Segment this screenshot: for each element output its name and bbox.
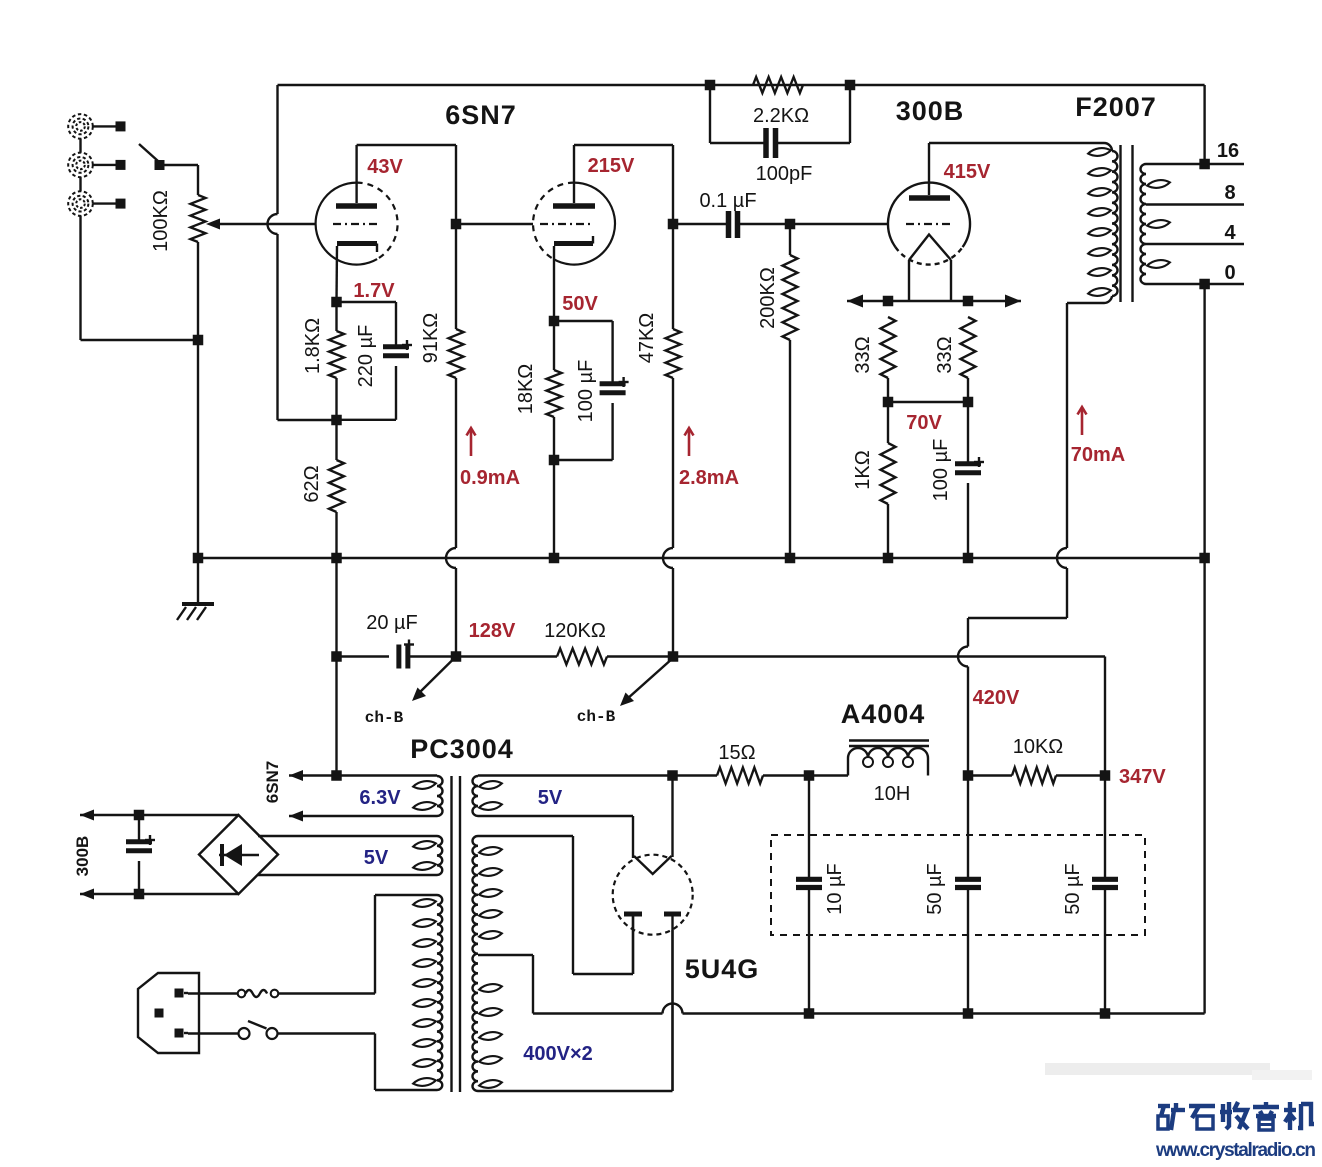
label 400Vx2 bbox=[523, 1043, 593, 1065]
svg-text:www.crystalradio.cn: www.crystalradio.cn bbox=[1155, 1140, 1316, 1161]
resistor 15&#937; surge bbox=[673, 742, 810, 784]
svg-text:47KΩ: 47KΩ bbox=[636, 313, 658, 364]
svg-text:215V: 215V bbox=[588, 155, 635, 177]
label PC3004 bbox=[410, 734, 514, 764]
svg-text:A4004: A4004 bbox=[841, 699, 926, 729]
junction top rail right of 2.2K bbox=[845, 80, 856, 91]
wire grid V1b bbox=[456, 223, 533, 225]
ch-B tap right bbox=[577, 658, 673, 726]
wire 300B plate to OPT bbox=[929, 143, 1112, 151]
wire plate V1a to stage2 bbox=[357, 145, 456, 224]
svg-text:400V×2: 400V×2 bbox=[523, 1043, 593, 1065]
label 6SN7 bbox=[445, 100, 517, 130]
wire HV center tap bbox=[478, 955, 533, 1014]
wire plate V1b to coupling bbox=[574, 145, 673, 224]
wire feedback left drop bbox=[268, 85, 337, 420]
svg-text:50 µF: 50 µF bbox=[924, 863, 946, 915]
svg-text:100 µF: 100 µF bbox=[930, 439, 952, 502]
filament 5U4G bbox=[634, 770, 678, 874]
svg-text:5V: 5V bbox=[538, 787, 563, 809]
label 300B heater bbox=[73, 836, 92, 877]
svg-text:18KΩ: 18KΩ bbox=[515, 364, 537, 415]
inductor 5V winding right bbox=[473, 776, 503, 816]
tap 4 label bbox=[1146, 222, 1244, 244]
capacitor 100&#181;F cathode bypass bbox=[554, 321, 629, 460]
svg-text:420V: 420V bbox=[973, 687, 1020, 709]
junction ground rail bbox=[1199, 553, 1210, 564]
svg-text:20 µF: 20 µF bbox=[366, 612, 418, 634]
triode V1b 6SN7 envelope bbox=[533, 183, 615, 265]
wire 100pF branch bbox=[710, 85, 850, 143]
choke A4004 10H bbox=[809, 699, 929, 805]
wire primary top bbox=[375, 895, 437, 994]
tap 8 label bbox=[1146, 182, 1244, 205]
watermark url bbox=[1155, 1140, 1316, 1161]
junction cathode network bottom bbox=[331, 415, 342, 426]
svg-text:100KΩ: 100KΩ bbox=[150, 190, 172, 252]
svg-text:16: 16 bbox=[1217, 140, 1239, 162]
svg-text:300B: 300B bbox=[896, 96, 965, 126]
watermark crystalradio logo bbox=[1158, 1102, 1314, 1130]
dashed group box bbox=[771, 835, 1145, 935]
wire hum balance row bbox=[883, 378, 974, 407]
resistor 62&#937; bbox=[301, 420, 344, 558]
wire OPT primary bottom bbox=[958, 296, 1112, 776]
svg-text:8: 8 bbox=[1224, 182, 1235, 204]
svg-text:300B: 300B bbox=[73, 836, 92, 877]
svg-text:128V: 128V bbox=[469, 620, 516, 642]
svg-text:91KΩ: 91KΩ bbox=[420, 313, 442, 364]
wire PSU ground bus bbox=[533, 1004, 1205, 1019]
capacitor 10&#181;F filter bbox=[796, 776, 846, 1014]
svg-text:70V: 70V bbox=[906, 412, 942, 434]
svg-text:5V: 5V bbox=[364, 847, 389, 869]
svg-text:10H: 10H bbox=[874, 783, 911, 805]
filament 300B bbox=[909, 235, 951, 302]
voltage label 70V bbox=[906, 412, 942, 434]
pot wiper arrow bbox=[206, 219, 316, 230]
core OPT bbox=[1121, 145, 1133, 302]
resistor 33&#937; left bbox=[852, 317, 896, 378]
svg-text:50V: 50V bbox=[562, 293, 598, 315]
resistor 10K&#937; dropper bbox=[968, 736, 1105, 784]
resistor 1K&#937; cathode bias bbox=[852, 402, 896, 558]
svg-text:70mA: 70mA bbox=[1071, 444, 1125, 466]
svg-text:220 µF: 220 µF bbox=[355, 325, 377, 388]
wire 5V left top bbox=[258, 835, 437, 837]
junction cathode network bottom V1b bbox=[549, 455, 560, 558]
voltage label 215V bbox=[588, 155, 635, 177]
RCA input jack J2 bbox=[68, 153, 125, 178]
potentiometer 100K&#937; volume bbox=[150, 165, 206, 558]
svg-text:100 µF: 100 µF bbox=[575, 360, 597, 423]
junction grid row stage2 bbox=[451, 219, 462, 230]
wire 347V feed bbox=[673, 657, 1105, 776]
grid V1a bbox=[333, 223, 381, 225]
plate V1a bbox=[336, 145, 377, 206]
junction 420V node bbox=[963, 770, 974, 781]
svg-text:4: 4 bbox=[1224, 222, 1236, 244]
svg-text:347V: 347V bbox=[1119, 766, 1166, 788]
svg-text:415V: 415V bbox=[944, 161, 991, 183]
current label 0.9mA bbox=[460, 428, 520, 489]
junction 347V node bbox=[1100, 770, 1111, 781]
svg-text:2.2KΩ: 2.2KΩ bbox=[753, 105, 809, 127]
capacitor 220&#181;F cathode bypass bbox=[337, 302, 413, 420]
wire ground to heater bbox=[335, 657, 337, 776]
svg-text:1.8KΩ: 1.8KΩ bbox=[302, 318, 324, 374]
wire bridge DC minus bbox=[80, 889, 239, 900]
inductor primary winding bbox=[413, 895, 443, 1090]
svg-text:5U4G: 5U4G bbox=[685, 954, 760, 984]
selector switch SW1 bbox=[139, 144, 198, 170]
svg-text:62Ω: 62Ω bbox=[301, 465, 323, 502]
switch mains SW2 bbox=[188, 1021, 375, 1039]
tap 0 label bbox=[1146, 262, 1244, 289]
svg-text:100pF: 100pF bbox=[756, 163, 813, 185]
triode V1a 6SN7 envelope bbox=[316, 183, 398, 265]
svg-text:33Ω: 33Ω bbox=[934, 336, 956, 373]
inductor OPT secondary bbox=[1141, 164, 1171, 284]
junction top rail left of 2.2K bbox=[705, 80, 716, 91]
wire HV bottom to plate bbox=[478, 930, 673, 1091]
grid 300B bbox=[906, 223, 950, 225]
label 5V left bbox=[364, 847, 389, 869]
capacitor 100pF bbox=[756, 128, 813, 185]
node cathode V1b 50V bbox=[549, 316, 560, 327]
label F2007 bbox=[1075, 92, 1157, 122]
svg-text:ch-B: ch-B bbox=[365, 709, 404, 727]
grid V1b bbox=[540, 223, 594, 225]
label 300B bbox=[896, 96, 965, 126]
node cathode V1a 1.7V bbox=[331, 297, 342, 308]
AC plug bbox=[138, 973, 199, 1053]
svg-text:200KΩ: 200KΩ bbox=[757, 267, 779, 329]
voltage label 420V bbox=[973, 687, 1020, 709]
resistor 47K&#937; plate load V1b bbox=[636, 224, 681, 657]
svg-text:F2007: F2007 bbox=[1075, 92, 1157, 122]
label 5V right bbox=[538, 787, 563, 809]
wire 300B filament row bbox=[847, 295, 1021, 308]
junction 10uF top bbox=[804, 770, 815, 781]
junction filament right bbox=[963, 296, 974, 307]
capacitor filament filter bbox=[126, 815, 155, 894]
capacitor 100&#181;F 300B bypass bbox=[930, 402, 984, 558]
wire 5V right top bbox=[478, 774, 673, 776]
svg-text:15Ω: 15Ω bbox=[718, 742, 755, 764]
svg-text:0: 0 bbox=[1224, 262, 1235, 284]
resistor 33&#937; right bbox=[934, 317, 976, 378]
wire ground to 20uF bbox=[331, 558, 342, 662]
resistor 120K&#937; dropper bbox=[456, 620, 673, 665]
voltage label 50V bbox=[562, 293, 598, 315]
wire 0 tap down bbox=[1203, 284, 1205, 558]
wire 6.3V top bbox=[289, 770, 437, 781]
plate 5U4G left bbox=[624, 914, 642, 974]
inductor 6.3V winding bbox=[413, 776, 443, 816]
cathode V1a bbox=[337, 244, 378, 303]
svg-text:6SN7: 6SN7 bbox=[263, 761, 282, 804]
svg-text:1.7V: 1.7V bbox=[353, 280, 395, 302]
junction ground rail bbox=[193, 553, 204, 564]
svg-text:1KΩ: 1KΩ bbox=[852, 450, 874, 489]
wire primary bottom bbox=[375, 1034, 437, 1091]
capacitor 20&#181;F decoupling bbox=[337, 612, 457, 669]
label 6.3V bbox=[359, 787, 401, 809]
junction 300B grid node bbox=[785, 219, 796, 230]
plate 300B bbox=[909, 143, 950, 198]
current label 70mA bbox=[1071, 407, 1125, 466]
fuse F1 bbox=[188, 990, 375, 998]
core PC3004 bbox=[452, 776, 461, 1092]
rectifier 5U4G envelope bbox=[613, 855, 693, 935]
svg-text:6.3V: 6.3V bbox=[359, 787, 401, 809]
capacitor 0.1&#181;F coupling bbox=[673, 190, 790, 238]
bridge rectifier D1 bbox=[199, 815, 278, 894]
ch-B tap left bbox=[365, 657, 456, 728]
wire 5V right bottom bbox=[478, 816, 633, 858]
wire 0 tap ground drop bbox=[1203, 558, 1205, 1014]
svg-text:33Ω: 33Ω bbox=[852, 336, 874, 373]
resistor 91K&#937; plate load V1a bbox=[420, 224, 464, 657]
junction ground rail bbox=[549, 553, 560, 564]
junction ground rail bbox=[883, 553, 894, 564]
svg-text:50 µF: 50 µF bbox=[1062, 863, 1084, 915]
svg-text:10KΩ: 10KΩ bbox=[1013, 736, 1064, 758]
cathode V1b bbox=[554, 236, 593, 321]
inductor 5V winding left bbox=[413, 836, 443, 875]
label 5U4G bbox=[685, 954, 760, 984]
inductor HV winding bbox=[472, 836, 502, 1091]
triode 300B envelope bbox=[888, 183, 970, 265]
resistor 200K&#937; grid leak bbox=[757, 224, 798, 558]
junction ground rail bbox=[963, 553, 974, 564]
wire HV top to plate bbox=[478, 836, 633, 974]
wire jack ground bus bbox=[81, 139, 199, 340]
resistor 18K&#937; cathode bbox=[515, 321, 562, 460]
capacitor 50&#181;F filter A bbox=[924, 776, 981, 1014]
voltage label 43V bbox=[367, 156, 403, 178]
svg-text:43V: 43V bbox=[367, 156, 403, 178]
RCA input jack J3 bbox=[68, 191, 125, 216]
junction 120K right node bbox=[668, 651, 679, 662]
watermark streak bbox=[1045, 1063, 1312, 1080]
svg-text:0.9mA: 0.9mA bbox=[460, 467, 520, 489]
tap 16 label bbox=[1146, 140, 1244, 169]
junction ground rail bbox=[785, 553, 796, 564]
wire 6.3V bottom bbox=[289, 811, 437, 822]
ground symbol bbox=[177, 558, 214, 620]
voltage label 1.7V bbox=[353, 280, 395, 302]
voltage label 128V bbox=[469, 620, 516, 642]
label 6SN7 heater bbox=[263, 761, 282, 804]
svg-text:120KΩ: 120KΩ bbox=[544, 620, 606, 642]
junction 128V node bbox=[451, 651, 462, 662]
wire 16 tap to feedback bbox=[1203, 85, 1205, 164]
RCA input jack J1 bbox=[68, 114, 125, 139]
resistor 2.2K&#937; feedback bbox=[753, 77, 809, 127]
svg-text:PC3004: PC3004 bbox=[410, 734, 514, 764]
junction ground rail bbox=[331, 553, 342, 564]
capacitor 50&#181;F filter B bbox=[1062, 776, 1118, 1014]
junction coupling node bbox=[668, 219, 679, 230]
svg-text:2.8mA: 2.8mA bbox=[679, 467, 739, 489]
wire main ground rail bbox=[198, 557, 1205, 559]
svg-text:0.1 µF: 0.1 µF bbox=[699, 190, 756, 212]
wire to 300B grid bbox=[790, 223, 888, 225]
plate V1b bbox=[553, 145, 595, 206]
inductor OPT primary bbox=[1088, 147, 1118, 298]
current label 2.8mA bbox=[679, 428, 739, 489]
junction filament left bbox=[883, 296, 894, 307]
svg-text:ch-B: ch-B bbox=[577, 708, 616, 726]
voltage label 415V bbox=[944, 161, 991, 183]
wire 5V left bottom bbox=[258, 874, 437, 876]
wire feedback top rail bbox=[278, 84, 1205, 86]
resistor 1.8K&#937; cathode bbox=[302, 302, 344, 420]
plate 5U4G right bbox=[664, 914, 681, 1091]
wire bridge DC plus bbox=[80, 810, 239, 821]
svg-text:10 µF: 10 µF bbox=[824, 863, 846, 915]
svg-text:6SN7: 6SN7 bbox=[445, 100, 517, 130]
voltage label 347V bbox=[1119, 766, 1166, 788]
